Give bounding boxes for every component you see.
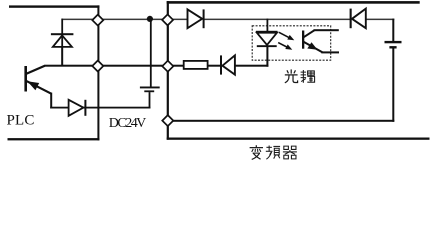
char pin [266,146,280,160]
optocoupler U1 box [252,26,331,60]
wire battery B1 top lead [150,19,152,87]
transistor Q1 collector stroke [26,66,45,74]
junction dot node [147,16,153,22]
wire PLC box right edge [97,5,99,140]
wire emitter vertical segment [50,93,52,109]
terminal node T5 [162,115,173,126]
char qi [283,146,297,159]
wire battery B2 top lead [392,19,394,41]
wire row B collector wire [44,65,183,67]
battery B2 positive plate [385,41,402,43]
phototransistor Q2 emitter stroke [304,42,323,53]
wire row A: PLC diode top wire to terminal [62,19,188,21]
svg-text:DC24V: DC24V [109,116,147,131]
terminal node T1 [92,15,103,26]
battery B1 negative plate [144,90,154,92]
char guang [285,69,298,82]
transistor Q1 emitter stroke [26,81,52,94]
transistor Q1 emitter arrow [27,81,39,90]
wire row A: diode D5 to right corner segment [366,19,395,21]
battery B2 negative plate [389,46,396,48]
phototransistor Q2 base bar [302,31,304,49]
phototransistor Q2 collector stroke [304,30,315,37]
wire row B resistor to diode D3 [208,65,222,67]
wire inverter box left edge [167,1,169,140]
diode D1 triangle [53,35,72,47]
wire row B diode D3 to LED corner [235,65,268,67]
wire PLC box bottom edge [8,138,100,140]
resistor R1 [184,61,208,69]
LED cathode bar [257,45,277,47]
diode D4 triangle [188,9,203,28]
LED triangle [257,33,277,45]
char bian [250,145,263,159]
terminal node T3 [92,61,103,72]
svg-text:PLC: PLC [7,113,35,129]
diode D5 cathode bar [350,9,352,29]
battery B1 positive plate [140,87,160,89]
char ou [301,70,315,83]
diode D1 lead through triangle [61,35,63,65]
transistor Q1 base bar [24,66,27,92]
diode D4 cathode bar [203,9,205,28]
wire battery B1 bottom lead [149,92,151,108]
wire row D bottom return wire [167,120,395,122]
wire inverter box top edge [167,1,420,4]
wire LED cathode lead down to row B [266,47,268,67]
diode D3 cathode bar [220,55,222,74]
wire phototransistor collector out [314,29,339,31]
wire row C emitter-diode wire [50,107,150,109]
diode D1 vertical lead [61,19,63,66]
label bianpinqi (inverter) hand-drawn glyphs [250,145,297,159]
terminal node T2 [162,14,173,25]
diode D3 triangle [222,55,235,74]
wire inverter box bottom edge [167,138,430,140]
diode D5 triangle [352,9,366,29]
light arrow 1 [279,32,294,40]
phototransistor Q2 emitter arrow [307,42,317,50]
diode D2 cathode bar [84,100,86,116]
LED anode bar [256,31,278,33]
wire PLC box top edge [9,5,99,7]
diode D2 triangle [69,100,84,116]
wire row A: diode D4 to diode D5 segment [205,19,351,21]
diode D1 cathode bar [51,33,74,35]
LED anode lead [267,19,269,31]
label guang-ou (optocoupler) hand-drawn glyphs [285,69,315,82]
terminal node T4 [162,61,173,72]
wire phototransistor emitter out [321,51,339,53]
light arrow 2 [278,43,292,50]
wire battery B2 bottom lead [392,48,394,121]
